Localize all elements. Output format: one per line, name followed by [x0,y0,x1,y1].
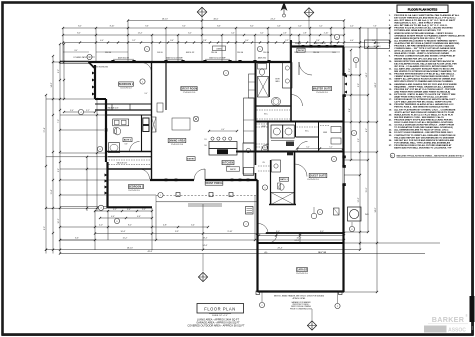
svg-text:2850: 2850 [294,52,298,54]
svg-text:4'-8": 4'-8" [163,225,167,227]
bath2 vanity [113,119,129,126]
svg-text:34'-0": 34'-0" [375,207,377,212]
right border dark segment [470,296,475,330]
svg-text:6'-2": 6'-2" [188,33,192,35]
svg-text:16.: 16. [389,94,392,96]
site line [60,253,425,255]
svg-text:FIXTURES AND GRAB BAR LOCATION: FIXTURES AND GRAB BAR LOCATIONS, TYP [394,29,441,32]
svg-text:PROVIDE TEMPERED GLAZING AT AL: PROVIDE TEMPERED GLAZING AT ALL HAZARDOU… [394,103,454,106]
master patio wall [290,40,292,62]
svg-text:5'-2": 5'-2" [329,146,333,148]
svg-text:17'x14'x9'0 CLG: 17'x14'x9'0 CLG [316,92,328,94]
grill legend box [365,40,390,49]
svg-text:8'-0": 8'-0" [44,226,46,230]
svg-text:17'x19'x10'0 CLG: 17'x19'x10'0 CLG [183,92,196,94]
window arrows bedroom3 wall [105,174,108,195]
interior wall bedroom3 north [108,168,152,170]
patio door arc [299,62,312,75]
svg-text:EXT DOOR THRESHOLDS AND WDW SI: EXT DOOR THRESHOLDS AND WDW SILLS, TYP (… [394,16,455,19]
room label master suite [312,86,331,94]
svg-text:3'-4": 3'-4" [70,110,74,112]
svg-text:24'-2": 24'-2" [295,240,300,242]
svg-text:9'-9": 9'-9" [175,231,179,233]
window headers top wall [111,59,270,63]
svg-text:14'-2": 14'-2" [366,72,368,77]
svg-text:GARAGE: GARAGE [297,269,308,272]
svg-text:4: 4 [101,208,102,210]
svg-text:20.: 20. [389,114,392,116]
svg-text:EXT DECK / PATIO SLABS TO SLOP: EXT DECK / PATIO SLABS TO SLOPE 1/4" PER… [394,93,456,96]
inner garage dimension line [258,233,345,242]
svg-text:28'-4": 28'-4" [278,247,283,249]
svg-text:25.: 25. [389,135,392,137]
bath2 window blob [105,128,108,131]
keynote diamond top right [304,8,314,28]
svg-text:3'-6": 3'-6" [170,40,174,42]
svg-text:BARKER: BARKER [432,315,465,324]
svg-text:PROVIDE 5/8" GYP BD AT CLG THR: PROVIDE 5/8" GYP BD AT CLG THROUGHOUT - … [394,88,456,91]
kitchen east cabinets [244,74,256,143]
svg-text:27.: 27. [389,145,392,147]
svg-text:11'x11'x9'0 CLG: 11'x11'x9'0 CLG [128,190,140,192]
svg-text:PROVIDE WTR RESISTANT GYP BD A: PROVIDE WTR RESISTANT GYP BD AT ALL WET … [394,73,455,76]
svg-text:18.: 18. [389,104,392,106]
room label bath 2 [123,138,132,146]
svg-text:2'-8": 2'-8" [203,40,207,42]
keynote circles plan [78,34,358,308]
svg-text:MFR SPECS PRIOR TO FRAMING AND: MFR SPECS PRIOR TO FRAMING AND ROUGH PLU… [394,80,453,83]
interior wall main vertical [151,62,153,180]
hall closet walls [296,122,342,152]
svg-text:3'-0": 3'-0" [245,40,249,42]
exterior wall left mid [105,99,107,162]
svg-text:BEDROOM 3: BEDROOM 3 [129,187,144,189]
svg-text:FIELD AND REPORT ANY DISCREPAN: FIELD AND REPORT ANY DISCREPANCIES TO DE… [394,136,454,139]
top dimension line 1 [127,18,345,21]
top extension lines [63,21,390,62]
svg-text:10.: 10. [389,61,392,63]
bedroom2 door arc [142,63,152,73]
laundry keynote [263,145,268,150]
svg-text:8'-0": 8'-0" [250,26,254,28]
svg-text:4'-0": 4'-0" [350,40,354,42]
svg-text:7'-0": 7'-0" [58,119,60,123]
interior wall guest bath east [294,152,296,205]
exterior wall left jog [95,98,106,100]
exterior wall top main [89,61,291,63]
svg-text:3'-2": 3'-2" [86,110,90,112]
svg-text:PROVIDE 26 GA GALV SHEET METAL: PROVIDE 26 GA GALV SHEET METAL PAN FLASH… [394,14,460,17]
room label great room [181,86,198,94]
window right wall guest [342,156,345,187]
svg-text:8'-2": 8'-2" [77,33,81,35]
master bath shower [258,77,269,98]
interior wall bedroom3 closet top [108,156,152,158]
room label kitchen [222,160,234,168]
garage beam note [274,295,325,300]
svg-text:2850 SH: 2850 SH [211,52,217,54]
great room south wall [150,179,258,181]
svg-text:12'-4": 12'-4" [138,33,143,35]
svg-text:2'-6": 2'-6" [283,33,287,35]
svg-text:14'x11': 14'x11' [226,166,232,168]
room label entry [187,157,195,161]
svg-text:ATTIC ACCESS 22"x30" MIN W/ WE: ATTIC ACCESS 22"x30" MIN W/ WEATHERSTRIP… [394,50,456,53]
svg-text:SEE SHT A5.1 FOR DOOR AND WIND: SEE SHT A5.1 FOR DOOR AND WINDOW SCHEDUL… [394,139,454,142]
label mstr bath [275,79,280,84]
svg-text:5'-6": 5'-6" [358,138,360,142]
svg-text:1: 1 [160,195,161,197]
top dimension line 4 [62,40,391,43]
interior wall bath west [255,62,257,180]
hall dim row [296,146,344,149]
svg-text:4'-0": 4'-0" [221,129,225,131]
svg-text:9'-10": 9'-10" [228,231,233,233]
svg-text:ALL BATH AND LAUNDRY EXHAUST F: ALL BATH AND LAUNDRY EXHAUST FANS TO BE … [394,67,454,70]
master bath toilet [258,64,267,76]
pantry label [227,167,240,171]
svg-text:5'-2": 5'-2" [132,40,136,42]
bath3 vanity [272,160,281,172]
svg-text:ASSOC: ASSOC [448,327,466,333]
svg-text:PROVIDE BLOCKING FOR ALL FUTUR: PROVIDE BLOCKING FOR ALL FUTURE GRAB BAR… [394,144,452,147]
area summary text [187,318,245,327]
svg-text:FLOOR PLAN: FLOOR PLAN [204,307,235,312]
svg-text:ALL EXT WALLS TO BE 2x6 @ 16": ALL EXT WALLS TO BE 2x6 @ 16" O.C. W/ R-… [394,19,456,22]
svg-text:4'-0": 4'-0" [99,225,103,227]
svg-text:DINING AREA: DINING AREA [169,140,185,143]
svg-text:GLAZING PER IRC R308.4 (VERIF: GLAZING PER IRC R308.4 (VERIFY DIMENSION… [394,42,459,45]
svg-text:MASTER SUITE: MASTER SUITE [313,88,332,91]
bath3 toilet [278,183,285,190]
svg-text:240: 240 [204,145,206,147]
linen closet label [213,46,226,51]
svg-text:COVERED OUTDOOR AREA - APPRO: COVERED OUTDOOR AREA - APPROX 58 SQ FT [187,325,245,328]
dining ceiling dashed [172,118,190,130]
svg-text:6'-6": 6'-6" [75,238,79,240]
svg-text:3050 SH: 3050 SH [105,52,111,54]
bath2 tub [109,143,120,153]
svg-text:5'-2": 5'-2" [306,146,310,148]
svg-text:PROVIDE 1-HR FIRE SEPARATION A: PROVIDE 1-HR FIRE SEPARATION AT HOUSE / … [394,45,454,48]
svg-text:8'-2": 8'-2" [78,26,82,28]
svg-text:15'-0": 15'-0" [366,187,368,192]
porch columns [176,193,233,197]
garage bottom wall [256,291,344,295]
svg-text:2650: 2650 [332,52,336,54]
svg-text:19.: 19. [389,109,392,111]
watermark logo [424,314,468,333]
svg-text:LIN: LIN [262,162,264,164]
attic access [334,208,340,215]
svg-text:4: 4 [265,147,266,149]
svg-text:W.I.C.: W.I.C. [305,131,310,133]
svg-text:PRIOR TO ORDERING DOOR: PRIOR TO ORDERING DOOR [290,308,313,310]
svg-text:22.: 22. [389,125,392,127]
svg-text:GREAT ROOM: GREAT ROOM [181,88,198,91]
svg-text:9'-6": 9'-6" [145,26,149,28]
svg-text:AND FINISH PER OWNER (SEE FIN: AND FINISH PER OWNER (SEE FINISH SCHEDUL… [394,90,450,93]
stacked washer dryer hall [143,118,149,132]
svg-text:28'-10": 28'-10" [127,247,133,249]
svg-text:14 FT MAX LENGTH PER IRC M1502: 14 FT MAX LENGTH PER IRC M1502, VERIFY R… [394,101,452,104]
top dimension line 2 [62,26,391,29]
keynote diamond site [198,254,207,282]
label covered patio [73,56,95,59]
svg-text:AND EGRESS REQMTS PER IRC R310: AND EGRESS REQMTS PER IRC R310, TYP) [394,37,441,40]
garage entry door arc [268,234,277,243]
svg-text:4'-0": 4'-0" [100,40,104,42]
svg-text:6'-2": 6'-2" [58,69,60,73]
bath3 tub [271,193,294,205]
title floor plan [197,304,244,318]
svg-text:4'-0": 4'-0" [350,26,354,28]
svg-text:11'-4": 11'-4" [51,189,53,194]
svg-text:5: 5 [265,187,266,189]
porch slab dashed edges [156,196,258,207]
svg-text:JOINT LAYOUT AND FINISH W/ OWN: JOINT LAYOUT AND FINISH W/ OWNER PRIOR T… [394,111,454,114]
svg-text:11'x13'x9'0 CLG: 11'x13'x9'0 CLG [307,179,319,181]
svg-text:ALL EXT FLATWORK BY OTHERS, U.: ALL EXT FLATWORK BY OTHERS, U.N.O. - COO… [394,108,456,111]
svg-text:GRILL: GRILL [374,43,381,45]
label custom shelving [92,67,148,96]
svg-text:24.: 24. [389,131,392,134]
svg-text:10'-2": 10'-2" [58,218,60,223]
svg-text:9'-8": 9'-8" [358,83,360,87]
svg-text:5'-2": 5'-2" [319,26,323,28]
svg-text:AWAY FROM STRUCTURE, TYP AT AL: AWAY FROM STRUCTURE, TYP AT ALL LOCATION… [394,96,448,99]
covered patio edge [60,61,89,63]
entry door arc [194,169,205,180]
master bath vanity [283,63,293,89]
svg-text:24'-2": 24'-2" [271,18,276,20]
svg-text:2: 2 [226,73,227,75]
svg-text:2'-6": 2'-6" [316,40,320,42]
svg-text:-(E)-: -(E)- [264,252,268,254]
svg-text:INDICATES TYPICAL KEYNOTE SYMB: INDICATES TYPICAL KEYNOTE SYMBOL - SEE K… [397,154,464,157]
svg-text:6: 6 [334,159,335,161]
svg-text:8'-0": 8'-0" [74,50,78,52]
exterior wall right [342,47,344,293]
great room ceiling fan [193,116,199,122]
svg-text:10'-6": 10'-6" [121,231,126,233]
svg-text:PROVIDE SOLID BLOCKING AT ALL: PROVIDE SOLID BLOCKING AT ALL CEILING MO… [394,27,453,30]
svg-text:11.: 11. [389,68,392,70]
svg-text:FRONT PORCH: FRONT PORCH [205,183,223,185]
exterior wall bedroom3 bottom [108,206,153,208]
label laundry [261,126,266,128]
svg-text:11'-2": 11'-2" [123,238,128,240]
svg-text:12.: 12. [389,74,392,76]
svg-text:GUEST SUITE: GUEST SUITE [310,176,327,178]
interior wall hall south [236,151,344,153]
window arrows left wall [92,72,95,96]
hall door marks [157,103,163,112]
exterior wall master top [291,45,344,47]
master bath tub [271,97,280,105]
svg-text:KITCHEN: KITCHEN [223,163,234,165]
svg-text:6: 6 [117,221,118,223]
svg-text:REQUIRED - VERIFY FINAL GRADES: REQUIRED - VERIFY FINAL GRADES AT ALL LA… [394,85,454,88]
svg-text:3050 SL: 3050 SL [157,52,163,54]
svg-text:ALL SHOWER ENCLOSURES TO RECEI: ALL SHOWER ENCLOSURES TO RECEIVE TEMPERE… [394,39,457,42]
bedroom3 door arc [140,169,150,179]
svg-text:VERIFY ROUGH OPENING: VERIFY ROUGH OPENING [291,306,312,308]
svg-text:5'-4": 5'-4" [191,225,195,227]
svg-text:7'-6": 7'-6" [373,26,377,28]
svg-text:9: 9 [320,212,321,214]
right extension lines [344,47,440,292]
svg-text:18'x7' GD: 18'x7' GD [318,252,327,254]
svg-text:BEDROOM 2: BEDROOM 2 [119,84,134,86]
svg-text:PATIO: PATIO [298,49,305,52]
svg-text:2'-2": 2'-2" [142,209,146,211]
master entry door arc [291,95,303,107]
master bath south wall [256,105,292,107]
svg-text:4'-2": 4'-2" [366,128,368,132]
left extension lines [46,62,156,240]
svg-text:22'x22'x9'0 CLG: 22'x22'x9'0 CLG [296,273,308,275]
exterior wall left upper [94,65,96,99]
window headers porch wall [165,179,250,182]
interior wall bedroom2 east [165,62,167,110]
svg-text:3'-2": 3'-2" [260,33,264,35]
svg-text:37'-4": 37'-4" [44,127,46,132]
svg-text:ENTRY: ENTRY [187,159,195,161]
room label patio [297,48,305,52]
svg-text:6068 SL DR: 6068 SL DR [186,52,195,54]
svg-text:WINDOW SIZES NOTED ARE NOMINAL: WINDOW SIZES NOTED ARE NOMINAL - VERIFY … [394,32,453,35]
svg-text:W.I.C.: W.I.C. [264,114,269,116]
guest door arc [295,164,308,177]
interior wall bedroom2 south closet [95,104,152,110]
svg-text:COMMON WALL - 5/8" TYPE X GYP: COMMON WALL - 5/8" TYPE X GYP BD AT GARA… [394,47,456,50]
left dimension lines [44,43,65,255]
bath2 east wall [141,115,143,152]
svg-text:LNDRY: LNDRY [261,126,266,128]
linen cabinet hall [152,117,157,132]
top dimension line 3 [62,33,345,36]
svg-text:SMOKE DETECTORS HARDWIRED W/ B: SMOKE DETECTORS HARDWIRED W/ BATTERY BAC… [394,60,454,63]
svg-text:BATH 2: BATH 2 [124,139,131,142]
keyed note bottom [390,153,464,158]
svg-text:PER IRC R308.4 - SEE WINDOW SC: PER IRC R308.4 - SEE WINDOW SCHEDULE NOT… [394,106,449,109]
svg-text:FOR GENERAL WALL TYPE LEGEND A: FOR GENERAL WALL TYPE LEGEND AND ASSEMBL… [394,141,450,144]
mech blob guest wall [287,152,293,156]
svg-text:DO NOT SCALE DRAWINGS - USE WR: DO NOT SCALE DRAWINGS - USE WRITTEN DIMS… [394,131,453,134]
svg-text:2: 2 [262,305,263,307]
laundry washer dryer [271,125,294,146]
left mid dim segment [63,110,96,113]
interior wall guest bath south [269,204,296,206]
svg-text:49'-8": 49'-8" [148,251,153,253]
svg-text:2050 SH: 2050 SH [237,52,243,54]
guest fan [311,207,317,219]
label walk-in [107,107,118,110]
room label front porch [205,181,223,185]
svg-text:17.: 17. [389,99,392,101]
svg-text:24'-8": 24'-8" [375,82,377,87]
bath2 toilet [114,128,121,135]
svg-text:9'-0": 9'-0" [182,26,186,28]
svg-text:7: 7 [246,224,247,226]
keynote leaders [262,63,356,304]
svg-text:PROVIDE COMBUSTION AIR AND SEI: PROVIDE COMBUSTION AIR AND SEISMIC STRAP… [394,55,456,58]
keynote diamond garage [307,309,316,330]
svg-text:TO FOUNDATION POUR (SEE SHEAR: TO FOUNDATION POUR (SEE SHEAR WALL SCHED… [394,126,453,129]
svg-text:12'x11'x10'0 CLG: 12'x11'x10'0 CLG [171,144,184,146]
garage hall door arc [259,224,269,234]
svg-text:2: 2 [142,81,143,83]
garage interior labels [264,252,327,254]
svg-text:INSULATION: R-38 CLG / R-21 W: INSULATION: R-38 CLG / R-21 WALLS / R-30… [394,113,453,116]
svg-text:VERIFY ALL APPLIANCE ROUGH-IN: VERIFY ALL APPLIANCE ROUGH-IN DIMS W/ OW… [394,78,456,81]
svg-text:5: 5 [260,49,261,51]
svg-text:3'-8": 3'-8" [349,68,351,72]
keynote diamond top [197,7,207,20]
svg-text:PER STRUCT. DWGS -: PER STRUCT. DWGS - [293,304,310,306]
svg-text:OPENINGS W/ MFR PRIOR TO FRAMI: OPENINGS W/ MFR PRIOR TO FRAMING (VERIFY… [394,34,465,37]
svg-text:34'-6": 34'-6" [203,245,208,247]
window headers master top wall [302,45,337,48]
svg-text:6'-4": 6'-4" [349,108,351,112]
svg-text:4'-6": 4'-6" [111,216,115,218]
bottom dimension lines [45,209,361,253]
interior wall master west [290,62,292,122]
svg-text:9: 9 [356,60,357,62]
svg-text:15.: 15. [389,89,392,91]
svg-text:DRYER EXHAUST TO EXTERIOR W/ S: DRYER EXHAUST TO EXTERIOR W/ SMOOTH META… [394,98,457,101]
svg-text:2850 SH: 2850 SH [295,43,302,45]
north arrow [281,3,287,18]
svg-text:26.: 26. [389,140,392,142]
master bath wc wall [269,62,271,97]
window label text top [118,42,326,59]
garage door note [290,301,313,311]
svg-text:INSULATED COVER - VERIFY LOCAT: INSULATED COVER - VERIFY LOCATION W/ OWN… [394,52,449,55]
svg-text:INSULATION, U.N.O. - SEE STRUC: INSULATION, U.N.O. - SEE STRUCT DWGS [394,22,441,25]
laundry door arc [261,144,269,152]
mech unit by porch [246,207,254,215]
window right wall upper [342,73,345,97]
svg-text:13.: 13. [389,79,392,81]
svg-text:21.: 21. [389,119,392,121]
window arrows right wall [344,75,347,94]
svg-text:2'-10": 2'-10" [324,33,329,35]
kitchen counter sink fridge [243,143,254,176]
svg-text:BATHS AND FOR WALL MOUNTED TV: BATHS AND FOR WALL MOUNTED TV LOCATIONS,… [394,147,452,150]
svg-text:3'-4": 3'-4" [127,209,131,211]
guest closet shelves [258,162,270,171]
svg-text:28'-10": 28'-10" [162,18,168,20]
svg-text:R302.11 AND R302.12 AT ALL REQ: R302.11 AND R302.12 AT ALL REQUIRED LOCA… [394,121,453,124]
svg-text:3'-2": 3'-2" [113,209,117,211]
bottom extension lines [95,204,360,254]
right dimension lines [349,28,378,293]
svg-text:ALL INT WALLS TO BE 2x4 @ 16": ALL INT WALLS TO BE 2x4 @ 16" O.C. U.N.O… [394,24,448,27]
svg-text:9'-0": 9'-0" [145,93,148,95]
svg-text:14'-6": 14'-6" [51,82,53,87]
svg-text:LINEN: LINEN [216,48,222,50]
svg-text:EACH SLEEPING ROOM, HALLS AND: EACH SLEEPING ROOM, HALLS AND EA FLOOR L… [394,62,457,65]
room label garage [296,267,308,275]
svg-text:2: 2 [203,278,204,280]
svg-text:12'-6": 12'-6" [358,197,360,202]
svg-text:LINEN: LINEN [323,132,327,134]
exterior wall porch-garage west [256,180,258,292]
kitchen range counter [209,149,237,156]
svg-text:8'-10": 8'-10" [110,26,115,28]
